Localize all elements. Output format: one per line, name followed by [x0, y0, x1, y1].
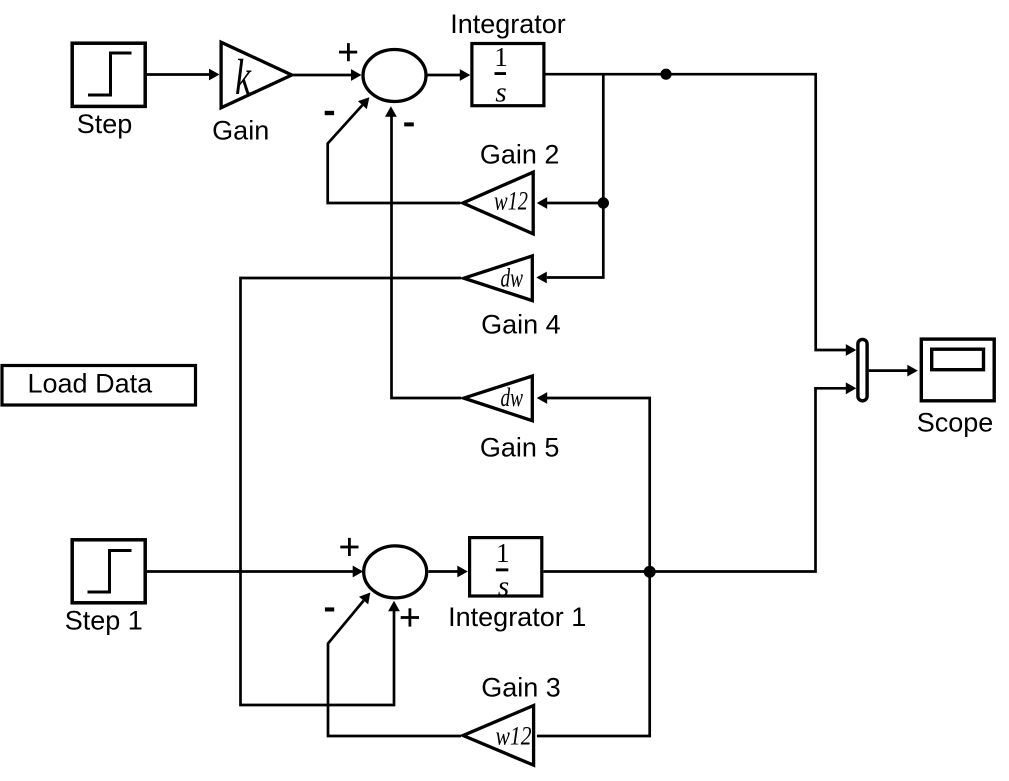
wire Step 1 to Sum2	[147, 566, 363, 578]
wire Sum1 to Integrator	[428, 69, 471, 81]
svg-text:Load Data: Load Data	[28, 369, 154, 399]
wire Gain to Sum1	[293, 69, 362, 81]
svg-text:Step 1: Step 1	[65, 606, 143, 636]
wire branch down x=603	[547, 74, 604, 277]
sum junction Sum2	[364, 546, 427, 598]
node dot on Integrator 1 output	[644, 566, 656, 578]
wire Gain 2 output to Sum1 (diagonal, minus)	[328, 97, 461, 203]
svg-text:Gain 5: Gain 5	[480, 433, 560, 463]
svg-text:dw: dw	[501, 383, 524, 412]
sign + (Sum2 left input)	[340, 538, 358, 556]
gain block Gain 2 (w12)	[463, 172, 533, 234]
wire Gain 5 input from Integrator 1 output junction	[537, 392, 650, 572]
wire Integrator 1 output to mux bottom	[544, 382, 857, 571]
arrowhead into Gain 4	[536, 272, 547, 284]
wire Gain 3 output to Sum2 (diagonal, minus)	[328, 593, 461, 737]
arrowhead into Gain 2	[537, 197, 548, 209]
mux block	[858, 339, 867, 400]
wire Sum2 to Integrator 1	[429, 566, 468, 578]
svg-text:Scope: Scope	[917, 408, 994, 438]
integrator block Integrator 1 (1/s)	[470, 538, 542, 603]
gain block Gain 3 (w12)	[463, 706, 533, 766]
svg-text:Gain 2: Gain 2	[480, 140, 560, 170]
annotation box Load Data	[2, 366, 196, 406]
sum junction Sum1	[363, 50, 426, 102]
svg-text:w12: w12	[496, 722, 532, 751]
svg-text:1: 1	[494, 42, 508, 72]
integrator block Integrator (1/s)	[472, 42, 544, 109]
svg-text:Integrator 1: Integrator 1	[448, 602, 586, 632]
svg-text:w12: w12	[494, 187, 528, 216]
wire branch to Gain 2	[547, 202, 603, 205]
svg-text:Gain 3: Gain 3	[481, 673, 561, 703]
gain block Gain 5 (dw)	[464, 376, 533, 421]
wire Step to Gain	[147, 69, 220, 81]
sign + (Sum2 bottom input)	[401, 608, 419, 626]
svg-text:Gain: Gain	[212, 116, 269, 146]
svg-text:s: s	[498, 571, 509, 603]
step source block Step 1	[72, 540, 145, 603]
svg-text:dw: dw	[501, 264, 524, 293]
node dot at Gain 2 branch	[598, 197, 609, 208]
svg-text:Step: Step	[77, 109, 133, 139]
sign - (Sum1 bottom input)	[404, 122, 414, 126]
node dot on integrator output	[660, 69, 671, 80]
wire Gain 5 output to Sum1 bottom (minus)	[385, 106, 461, 398]
svg-text:1: 1	[496, 538, 510, 568]
scope block Scope	[921, 339, 994, 401]
gain block Gain 4 (dw)	[464, 256, 533, 301]
sign - (Sum1 diagonal input)	[325, 111, 334, 115]
svg-text:k: k	[235, 50, 252, 106]
step source block Step	[72, 43, 145, 106]
gain block Gain (k)	[221, 42, 292, 108]
wire Gain 4 output to Sum2 bottom (plus)	[241, 278, 462, 705]
wire Integrator output to mux top	[546, 74, 857, 356]
svg-text:s: s	[495, 77, 506, 109]
svg-text:Gain 4: Gain 4	[481, 310, 561, 340]
sign - (Sum2 diagonal input)	[325, 607, 334, 611]
sign + (Sum1 left input)	[339, 43, 357, 61]
wire junction down to Gain 3 input	[537, 572, 650, 736]
wire mux to Scope	[869, 365, 918, 377]
svg-text:Integrator: Integrator	[450, 9, 566, 39]
